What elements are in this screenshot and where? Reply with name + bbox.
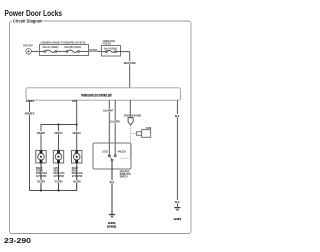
wire label GRN/BLU actuator 3 (72, 131, 81, 134)
connector plug (142, 130, 151, 138)
svg-text:BATTERY: BATTERY (23, 44, 33, 48)
wire label BLU/RED (110, 120, 120, 123)
switch lock contact (108, 155, 110, 157)
actuator M3 top pin (75, 150, 78, 153)
fuse No.38 (20A) (66, 51, 68, 53)
wire label YEL/RED (37, 180, 46, 183)
wire actuator M2 to bus (58, 163, 60, 191)
wire label BLU/WHT (103, 109, 114, 112)
under-dash fuse box (102, 46, 121, 57)
svg-text:GRN: GRN (72, 99, 77, 103)
svg-text:FUSE BOX: FUSE BOX (103, 41, 112, 45)
svg-text:BLK: BLK (175, 114, 180, 118)
actuator M1 box (36, 150, 46, 163)
actuator M2 bottom pin (57, 160, 60, 163)
wire label GRN/YEL actuator 2 (54, 131, 63, 134)
frame label Circuit Diagram (12, 18, 44, 25)
wire under-dash box to control unit (120, 52, 130, 88)
svg-text:WHT/GRN: WHT/GRN (124, 61, 136, 65)
junction dot bus actuator 2 (58, 190, 60, 192)
actuator M3 box (72, 150, 82, 163)
actuator M1 motor (38, 153, 45, 160)
svg-text:BLK: BLK (175, 200, 180, 204)
svg-text:BLU/WHT: BLU/WHT (103, 109, 113, 113)
wire label GRN/RED (24, 112, 34, 115)
junction dot at feed branch (76, 124, 78, 126)
svg-text:GRN/BLU: GRN/BLU (72, 131, 81, 135)
wire label GRN/WHT actuator 1 (36, 131, 45, 134)
svg-text:No.38 (20A): No.38 (20A) (64, 45, 81, 49)
frame border (10, 21, 192, 234)
switch unlock contact (114, 155, 116, 157)
door lock knob connector (mechanical) (128, 118, 133, 125)
wire control unit to actuator feed (76, 100, 78, 150)
wire inside under-hood box (40, 50, 44, 52)
wire switch to ground (111, 161, 113, 214)
junction dot bus actuator 1 (40, 190, 42, 192)
fuse No.41 (80A) (44, 51, 46, 53)
fuse No.24 (20A) (106, 51, 108, 53)
svg-text:Power Door Locks: Power Door Locks (5, 9, 63, 18)
wire distribution branch (41, 125, 77, 151)
actuator M2 top pin (57, 150, 60, 153)
svg-text:GRN/WHT: GRN/WHT (37, 131, 46, 135)
wire label BLK lower (175, 200, 181, 203)
wire battery to under-hood box (32, 50, 40, 52)
svg-text:No.24 (20A): No.24 (20A) (104, 46, 117, 50)
svg-text:BLK: BLK (110, 180, 115, 184)
mechanical dashed branch to connector plug (131, 133, 137, 135)
svg-text:DOOR LOCK KNOB: DOOR LOCK KNOB (124, 114, 141, 118)
wire label WHT/GRN (123, 61, 136, 64)
switch pivot contact (111, 159, 113, 161)
wire control unit right to ground (176, 100, 178, 207)
svg-text:GRN/RED: GRN/RED (25, 112, 35, 116)
svg-text:BLU/RED: BLU/RED (110, 120, 119, 124)
wire control unit to switch unlock (114, 100, 116, 155)
wire control unit to switch lock (108, 100, 110, 155)
mechanical dashed link knob to switch (119, 125, 130, 158)
svg-text:YEL/RED: YEL/RED (37, 180, 45, 184)
ground G402 (control unit) (174, 207, 180, 209)
wire control unit to door lock knob connector (129, 100, 131, 117)
actuator M3 bottom pin (75, 160, 78, 163)
svg-text:(G402): (G402) (107, 224, 116, 228)
svg-text:UNLOCK: UNLOCK (118, 149, 126, 153)
svg-text:GRN/YEL: GRN/YEL (54, 131, 63, 135)
svg-text:POWER DOOR LOCK CONTROL UNIT: POWER DOOR LOCK CONTROL UNIT (81, 93, 112, 97)
actuator M2 box (53, 150, 63, 163)
driver's door lock switch box (93, 143, 131, 169)
wire label YEL/RED (54, 180, 63, 183)
svg-text:YEL/RED: YEL/RED (54, 180, 62, 184)
switch lever (109, 155, 112, 160)
svg-text:LOCK: LOCK (102, 149, 107, 153)
svg-text:SWITCH: SWITCH (120, 175, 128, 179)
svg-text:23-290: 23-290 (4, 236, 31, 245)
battery B1 (26, 49, 32, 55)
svg-text:YEL/RED: YEL/RED (73, 180, 81, 184)
wire control unit left return (30, 100, 78, 190)
wire label WHT/RED (89, 48, 97, 51)
wire label BLK (175, 114, 181, 117)
wire under-hood box to under-dash box (89, 50, 103, 52)
ground G401 (switch) (109, 213, 115, 215)
svg-text:No.41 (80A): No.41 (80A) (43, 45, 59, 49)
svg-text:G401: G401 (174, 217, 182, 221)
actuator M1 top pin (40, 150, 43, 153)
svg-text:Circuit Diagram: Circuit Diagram (13, 19, 43, 24)
wire actuator M3 to bus (76, 163, 78, 191)
actuator M1 bottom pin (40, 160, 43, 163)
wire label BLK (109, 180, 115, 183)
actuator M2 motor (55, 153, 62, 160)
under-hood fuse/relay box (40, 45, 89, 56)
junction dot at middle branch (58, 124, 60, 126)
wire branch middle actuator (58, 125, 60, 151)
wire inside under-dash box (102, 51, 106, 53)
wire label YEL/RED (72, 180, 81, 183)
wire actuator M1 to bus (40, 163, 42, 191)
control unit U1 (26, 88, 181, 100)
svg-text:WHT/RED: WHT/RED (89, 48, 97, 52)
actuator M3 motor (73, 153, 80, 160)
